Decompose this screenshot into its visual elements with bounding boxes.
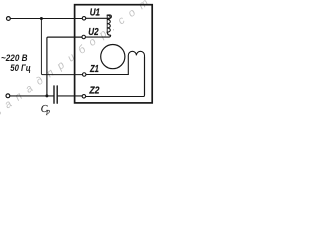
svg-text:Z1: Z1 <box>89 64 99 75</box>
svg-text:50 Гц: 50 Гц <box>10 62 31 73</box>
terminal U2 <box>82 35 86 39</box>
wire U1 to main winding <box>86 17 109 19</box>
terminal Z1 <box>82 73 86 77</box>
terminal U1 <box>82 17 86 21</box>
svg-text:Cр: Cр <box>41 104 51 116</box>
terminal Z2 <box>82 95 86 99</box>
svg-text:U2: U2 <box>88 27 99 38</box>
capacitor Cp <box>53 86 55 103</box>
junction dot U2 branch on bottom wire <box>45 94 48 97</box>
svg-text:U1: U1 <box>90 8 101 19</box>
junction dot Z branch on top wire <box>40 17 43 20</box>
main winding A (stator) <box>107 15 111 18</box>
terminal L1 (top supply) <box>6 17 10 21</box>
rotor circle <box>101 45 125 69</box>
motor frame box <box>75 5 153 103</box>
aux winding B (starting) <box>128 51 144 95</box>
wire Z2 to aux winding <box>86 57 145 97</box>
wire main winding to U2 <box>86 35 111 37</box>
wire top line down to Z1 <box>41 19 82 75</box>
wire capacitor to Z2 <box>58 95 82 97</box>
watermark <box>0 0 151 119</box>
wire U2 to L2 branch <box>47 37 82 95</box>
wire Z1 to aux winding <box>86 74 128 76</box>
wire L2 to capacitor <box>10 95 53 97</box>
wire L1 to U1 <box>10 18 82 20</box>
terminal L2 (bottom supply) <box>6 94 10 98</box>
svg-text:Z2: Z2 <box>89 86 100 97</box>
